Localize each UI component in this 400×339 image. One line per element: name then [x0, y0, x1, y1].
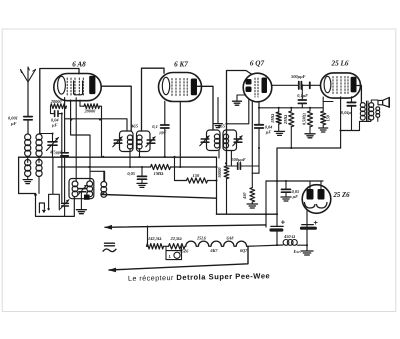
- lamp L pilot: [166, 246, 182, 259]
- heater string: [185, 241, 283, 246]
- capacitor C 500uuF grid: [272, 82, 321, 89]
- wire: [38, 157, 40, 194]
- capacitor C 0,1uF grid: [298, 85, 306, 108]
- label 6A8 heater: [227, 235, 235, 240]
- label 1 Mohm: [154, 171, 164, 176]
- label 25Z6 heater: [179, 248, 190, 253]
- arrow AC bottom: [108, 268, 116, 273]
- wire: [129, 149, 131, 168]
- svg-text:6 A8: 6 A8: [72, 61, 86, 69]
- capacitor C 0,1uF: [161, 101, 169, 157]
- trimmer C T2 left: [200, 136, 209, 146]
- wire: [297, 244, 307, 246]
- wire: [27, 157, 29, 163]
- wire: [89, 171, 91, 181]
- wire diode 6Q7: [225, 99, 248, 125]
- switch S1 contact: [39, 203, 46, 213]
- svg-text:2MΩ: 2MΩ: [283, 114, 288, 125]
- svg-text:+: +: [314, 218, 319, 227]
- wire grid 6K7: [142, 68, 165, 131]
- svg-text:450 Ω: 450 Ω: [283, 234, 296, 239]
- coil L2b oscillator: [87, 181, 93, 197]
- label 2Mohm: [283, 114, 288, 125]
- capacitor C filter 1: [271, 214, 283, 245]
- coil choke field: [283, 240, 297, 246]
- tube U4 25L6: [321, 73, 361, 98]
- oscillator can: [69, 179, 94, 199]
- svg-text:Exc.: Exc.: [293, 249, 302, 254]
- svg-text:L: L: [168, 254, 172, 259]
- resistor R 28000 grid: [80, 104, 102, 157]
- trimmer C T1 left: [113, 137, 122, 147]
- svg-text:0,1: 0,1: [152, 124, 158, 129]
- coil T1 secondary: [137, 135, 142, 149]
- svg-text:6 K7: 6 K7: [174, 61, 188, 69]
- wire: [164, 245, 169, 247]
- wire: [323, 101, 333, 103]
- AC symbol: [103, 243, 116, 251]
- label 0,04 uF: [265, 125, 273, 135]
- svg-text:450: 450: [242, 192, 247, 200]
- wire 6Q7 cathode down: [258, 103, 260, 125]
- wire: [216, 157, 218, 214]
- arrow AC top: [104, 225, 112, 230]
- transformer T output primary: [360, 103, 365, 121]
- label 25L6: [331, 60, 349, 68]
- wire: [79, 100, 81, 106]
- wire step: [360, 119, 371, 130]
- svg-text:142,5Ω: 142,5Ω: [148, 236, 162, 241]
- svg-text:50000: 50000: [217, 168, 222, 178]
- speaker: [378, 98, 389, 108]
- label 465: [130, 124, 139, 129]
- svg-text:28000: 28000: [50, 99, 63, 104]
- svg-text:6A8: 6A8: [227, 235, 235, 240]
- switch S2 contact: [47, 194, 59, 210]
- transformer core: [367, 101, 369, 121]
- svg-text:0,001: 0,001: [8, 116, 18, 121]
- label 0,04 uF: [51, 118, 59, 128]
- svg-text:0,05: 0,05: [127, 171, 135, 176]
- wire switch bottom: [34, 194, 74, 217]
- svg-text:+: +: [281, 217, 286, 226]
- capacitor C 0,05 HT: [282, 181, 291, 197]
- label 0,05: [127, 171, 135, 176]
- svg-text:465: 465: [217, 124, 226, 129]
- capacitor C 0,04 tone: [347, 97, 355, 131]
- wire B plus: [276, 148, 278, 214]
- wire plate 6K7 to IF2: [198, 86, 214, 130]
- label 0,05 uF HT: [292, 189, 300, 199]
- wire bus B3 with resistor: [175, 180, 217, 182]
- wire bus B5: [217, 213, 278, 215]
- coil L2c oscillator: [101, 182, 107, 198]
- wire: [139, 149, 141, 158]
- ground R 150: [319, 128, 328, 132]
- resistor R 50000 volume: [224, 166, 229, 214]
- capacitor C padding: [61, 153, 68, 203]
- wire: [40, 133, 53, 135]
- label 450: [242, 192, 247, 200]
- wire: [230, 151, 232, 167]
- label 25L6 heater: [196, 235, 207, 240]
- label 465 IF2: [217, 124, 226, 129]
- label 28000: [50, 99, 63, 104]
- wire bus 130: [341, 130, 360, 132]
- resistor R 0,5Mohm: [307, 108, 312, 134]
- wire: [377, 117, 379, 121]
- wire: [61, 114, 63, 203]
- capacitor C antenna 0,001uF: [24, 117, 32, 134]
- ground R 1Mohm: [275, 131, 285, 135]
- svg-text:1MΩ: 1MΩ: [154, 171, 164, 176]
- label 6Q7 heater: [240, 248, 248, 253]
- coil T1 primary: [127, 135, 132, 149]
- label 6K7 heater: [211, 248, 219, 253]
- IF transformer T1 can: [120, 131, 151, 152]
- wire osc feed: [71, 100, 105, 182]
- svg-text:25 Z6: 25 Z6: [333, 192, 351, 199]
- label 6K7: [174, 61, 188, 69]
- ground R 0,5Mohm: [305, 134, 315, 138]
- label 142,5 ohm: [148, 236, 162, 241]
- svg-text:500µµF: 500µµF: [291, 74, 306, 79]
- label 25Z6: [333, 192, 351, 199]
- svg-text:µF: µF: [51, 123, 57, 128]
- wire: [103, 171, 105, 181]
- svg-text:28000: 28000: [84, 109, 97, 114]
- wire: [174, 157, 176, 180]
- svg-text:µF: µF: [10, 121, 17, 126]
- wire AC line top: [105, 225, 266, 227]
- capacitor C filter 2: [302, 225, 316, 229]
- trimmer C T1 right: [146, 137, 155, 147]
- wire plate 25Z6 b: [320, 181, 322, 189]
- coil L1b antenna secondary: [36, 134, 42, 176]
- svg-text:25 L6: 25 L6: [331, 60, 349, 68]
- label 150: [193, 173, 201, 178]
- wire: [218, 151, 220, 159]
- svg-text:25L6: 25L6: [196, 235, 207, 240]
- wire plate 25Z6 a: [309, 181, 311, 189]
- wire: [64, 98, 66, 153]
- label 6Q7: [250, 60, 265, 68]
- wire: [340, 147, 342, 149]
- wire AC line bottom: [109, 246, 248, 270]
- wire 25Z6 cathode: [306, 209, 308, 250]
- wire: [265, 181, 267, 227]
- label 22,5 ohm: [170, 236, 183, 241]
- wire bus B1: [19, 156, 217, 158]
- svg-text:150: 150: [193, 173, 201, 178]
- wire AVC: [65, 119, 127, 131]
- resistor R 22,5 ohm: [169, 244, 186, 249]
- wire bus B2 with resistor: [58, 166, 217, 168]
- svg-text:22,5Ω: 22,5Ω: [170, 236, 183, 241]
- label plus 2: [314, 218, 319, 227]
- tube U3 6Q7: [243, 73, 272, 102]
- label plus 1: [281, 217, 286, 226]
- label 500uuF grid: [291, 74, 306, 79]
- label 0,5Mohm: [302, 112, 307, 125]
- label 6A8: [72, 61, 86, 69]
- wire cathode 6K7: [179, 102, 181, 168]
- variable capacitor C tuning: [47, 134, 59, 151]
- svg-text:µF: µF: [265, 130, 271, 135]
- wire bus grid: [259, 107, 323, 109]
- coil L2a oscillator: [72, 181, 78, 197]
- coil L1a antenna primary: [25, 134, 31, 176]
- coil T2 primary: [214, 134, 219, 148]
- wire plate 25L6: [357, 86, 362, 103]
- svg-text:500µµF: 500µµF: [232, 157, 246, 162]
- svg-text:0,04µ: 0,04µ: [341, 110, 352, 115]
- svg-text:µF: µF: [292, 194, 298, 199]
- ground C 0,05: [137, 183, 147, 187]
- capacitor C 500uuF coupling: [227, 163, 260, 169]
- label 0,001 uF: [8, 116, 18, 127]
- trimmer C padder: [60, 200, 69, 217]
- label 50000: [217, 168, 222, 178]
- wire heater drop: [147, 226, 149, 246]
- ground main: [301, 251, 313, 255]
- wire: [75, 98, 77, 181]
- svg-text:0,5MΩ: 0,5MΩ: [302, 112, 307, 125]
- svg-text:µµF: µµF: [159, 131, 167, 135]
- label 450 ohm choke: [283, 234, 296, 239]
- resistor R 28000 osc: [51, 104, 67, 114]
- ground 6Q7 cathode: [233, 95, 245, 105]
- coil voice: [376, 107, 380, 118]
- capacitor C osc padder blob: [84, 195, 90, 200]
- label 28000 grid: [84, 109, 97, 114]
- transformer T output secondary: [369, 103, 374, 121]
- label 150 cathode: [326, 114, 331, 121]
- wire grid 6A8 top: [40, 69, 79, 134]
- wire screen 6K7: [217, 98, 219, 124]
- capacitor C 0,04 AF: [255, 125, 264, 173]
- trimmer C T2 right: [233, 136, 242, 146]
- svg-text:6Q7: 6Q7: [240, 248, 248, 253]
- resistor R 142,5 ohm: [147, 244, 164, 249]
- wire cathode 25L6: [340, 97, 342, 148]
- wire shield box left: [19, 157, 36, 193]
- variable capacitor C osc: [78, 185, 88, 196]
- svg-text:465: 465: [130, 124, 139, 129]
- capacitor C 0,04: [51, 111, 62, 117]
- resistor R 1 Mohm: [151, 164, 171, 169]
- resistor R 2Mohm: [289, 108, 294, 148]
- label 0,1uF: [297, 93, 308, 98]
- wire HT line: [266, 180, 323, 182]
- label Exc: [293, 249, 302, 254]
- wire bus B4: [102, 194, 217, 199]
- wire: [371, 100, 378, 103]
- wire bus 148: [278, 147, 341, 149]
- resistor R 150: [187, 178, 208, 183]
- caption: [128, 271, 270, 282]
- tube U5 25Z6 rectifier: [302, 185, 331, 214]
- label 0,04u: [341, 110, 352, 115]
- svg-text:0,1µF: 0,1µF: [297, 93, 308, 98]
- IF transformer T2 can: [207, 130, 237, 151]
- svg-text:25Z6: 25Z6: [179, 248, 190, 253]
- ground R450: [247, 202, 257, 208]
- antenna: [21, 67, 36, 116]
- svg-text:6K7: 6K7: [211, 248, 219, 253]
- coil T2 secondary: [223, 134, 228, 148]
- ground screen: [214, 124, 223, 128]
- label 415 uuF: [49, 151, 63, 155]
- ground oscillator varcap: [76, 192, 86, 214]
- resistor R 1Mohm AF: [276, 108, 281, 131]
- svg-text:150: 150: [326, 114, 331, 121]
- ground antenna coil: [23, 177, 32, 184]
- tube U1 6A8: [54, 74, 101, 101]
- wire: [52, 145, 54, 157]
- svg-text:6 Q7: 6 Q7: [250, 60, 265, 68]
- wire plate 6A8 to IF1: [102, 86, 132, 131]
- resistor R 150 cathode: [321, 97, 326, 128]
- capacitor C 0,05: [138, 167, 147, 183]
- label 1Mohm AF: [270, 113, 275, 123]
- wire shield box right: [52, 157, 54, 193]
- ground C 0,05 HT: [281, 197, 291, 201]
- label 500uuF: [232, 157, 246, 162]
- wire plate 6Q7 down: [252, 102, 259, 188]
- wire grid 6Q7 to volume: [227, 71, 253, 167]
- svg-text:1MΩ: 1MΩ: [270, 113, 275, 123]
- label 0,1 uF: [152, 124, 167, 135]
- tube U2 6K7: [159, 73, 202, 102]
- resistor R 450: [250, 188, 255, 202]
